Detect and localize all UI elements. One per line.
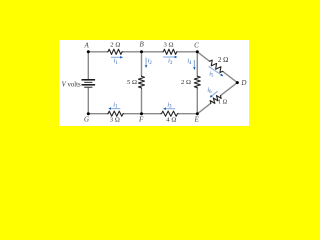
svg-text:4 Ω: 4 Ω <box>166 116 176 123</box>
svg-text:2 Ω: 2 Ω <box>218 56 228 64</box>
svg-text:1 Ω: 1 Ω <box>218 99 228 105</box>
svg-text:B: B <box>140 41 145 49</box>
svg-text:G: G <box>84 116 89 124</box>
svg-text:5 Ω: 5 Ω <box>127 79 137 86</box>
svg-text:E: E <box>193 116 199 124</box>
svg-text:D: D <box>240 79 246 87</box>
svg-text:C: C <box>194 41 199 49</box>
svg-text:2 Ω: 2 Ω <box>110 42 120 49</box>
svg-text:A: A <box>84 41 90 49</box>
svg-text:F: F <box>138 116 144 124</box>
svg-text:2 Ω: 2 Ω <box>181 79 191 86</box>
svg-text:3 Ω: 3 Ω <box>164 42 174 49</box>
svg-text:V volts: V volts <box>62 82 81 89</box>
svg-text:3 Ω: 3 Ω <box>110 116 120 123</box>
